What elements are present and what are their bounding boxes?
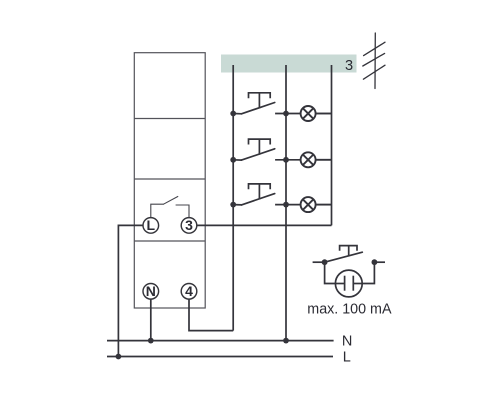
lamp E2: [301, 152, 332, 167]
U1 section divider 1: [134, 118, 205, 120]
svg-text:4: 4: [185, 283, 193, 299]
junction dot S3 pivot: [230, 202, 236, 208]
wire: lamp neutral line (middle vertical): [285, 65, 287, 341]
terminal N: [143, 284, 159, 300]
junction dot S2 pivot: [230, 157, 236, 163]
junction dot S3 fixed contact: [283, 202, 289, 208]
N bus line: [107, 340, 334, 342]
junction dot S1 pivot: [230, 111, 236, 117]
terminal 4: [181, 284, 197, 300]
svg-text:N: N: [342, 333, 352, 349]
terminal 3: [181, 218, 197, 234]
wire: terminal 3 to lamp return line: [197, 224, 332, 226]
svg-text:N: N: [146, 283, 156, 299]
junction dot S1 fixed contact: [283, 111, 289, 117]
wire: push-button common line (left vertical): [232, 65, 234, 331]
glow lamp of S4: [325, 262, 375, 297]
push-button S2: [233, 139, 301, 160]
internal relay contact of U1 (between L and 3): [151, 197, 189, 218]
cable symbol W1 (3-core slash marks): [363, 33, 385, 89]
wire: terminal 4 to push-button line: [189, 299, 233, 331]
svg-text:3: 3: [345, 58, 353, 74]
terminal L: [143, 218, 159, 234]
junction dot S4 right: [372, 259, 378, 265]
junction dot middle line to N bus: [283, 338, 289, 344]
lamp E1: [301, 106, 332, 121]
svg-text:L: L: [147, 217, 156, 233]
svg-text:max. 100 mA: max. 100 mA: [307, 302, 392, 318]
wire: N terminal drop to N bus: [150, 299, 152, 341]
wire: switched-live line (right vertical): [331, 65, 333, 225]
svg-text:L: L: [343, 350, 351, 366]
junction dot L-wire to L bus: [116, 354, 122, 360]
lamp E3: [301, 197, 332, 212]
L bus line: [107, 356, 333, 358]
svg-text:3: 3: [185, 217, 193, 233]
junction dot N-wire to N bus: [148, 338, 154, 344]
push-button S3: [233, 184, 301, 205]
distribution duct bar (3-wire riser): [221, 55, 357, 73]
U1 section divider 3: [134, 240, 205, 242]
push-button S1: [233, 93, 301, 114]
junction dot S2 fixed contact: [283, 157, 289, 163]
junction dot S4 left: [322, 259, 328, 265]
wire: L terminal to left drop: [118, 225, 143, 356]
timer device U1 outline: [134, 53, 205, 308]
U1 section divider 2: [134, 178, 205, 180]
illuminated push-button S4 contact stubs: [313, 246, 385, 263]
